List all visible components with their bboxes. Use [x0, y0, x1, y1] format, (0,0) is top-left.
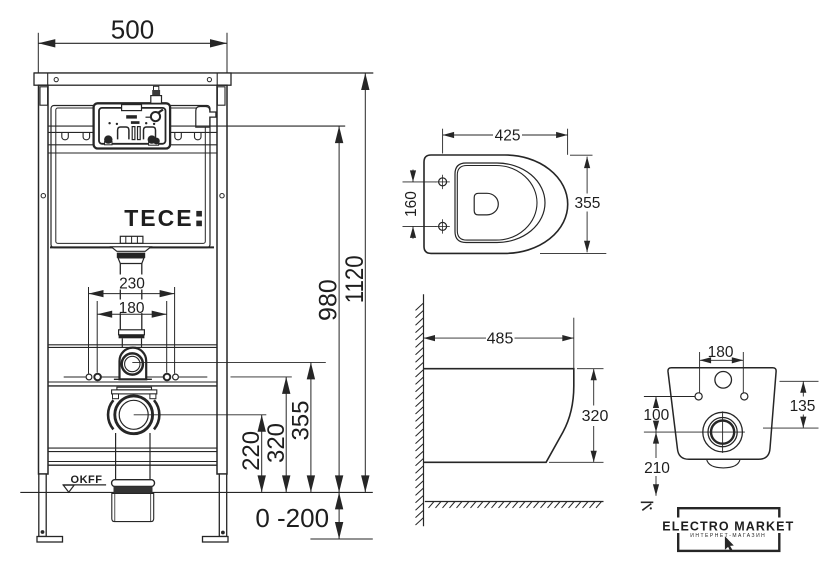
drain bracket wide bar	[112, 390, 157, 394]
svg-text:220: 220	[238, 431, 265, 471]
flush unit top notch	[122, 105, 142, 111]
svg-text:485: 485	[487, 331, 514, 348]
slotted rail top line / 980 extension	[48, 125, 345, 127]
rail slot 3	[175, 132, 182, 139]
svg-text:320: 320	[263, 423, 290, 463]
dimension 160	[403, 170, 437, 239]
svg-text:425: 425	[495, 128, 521, 145]
frame top plate	[34, 73, 231, 85]
svg-text:230: 230	[119, 275, 145, 292]
valve body	[151, 96, 162, 104]
water inlet circle	[122, 353, 143, 374]
svg-text:100: 100	[643, 407, 669, 424]
flush valve funnel	[118, 258, 144, 264]
rear bottom pipe bulge	[707, 459, 741, 468]
flush unit bottom screw right	[149, 141, 159, 145]
valve cap	[152, 90, 160, 96]
slotted rail lower lines	[48, 144, 217, 146]
rail screw left	[41, 194, 45, 198]
svg-text:980: 980	[315, 279, 343, 321]
leg screw right	[221, 531, 225, 535]
svg-text:320: 320	[582, 408, 609, 425]
drain circle	[115, 396, 153, 434]
dimension 1120	[341, 73, 370, 492]
svg-text:180: 180	[119, 300, 145, 317]
flush unit lever handle	[158, 110, 163, 113]
bolt hole outer right	[173, 374, 179, 380]
flush unit lever circle	[151, 112, 160, 121]
drain clamp arm left	[108, 400, 113, 429]
bolt hole ringed left	[94, 374, 101, 381]
rail slot 1	[62, 132, 69, 139]
wall line	[423, 294, 425, 526]
drain clamp arm right	[154, 400, 159, 429]
rail slot 4	[195, 132, 202, 139]
rear drain crosshair horizontal / 100-210 lower extension	[644, 431, 745, 433]
rail slot 2	[83, 132, 90, 139]
dimension 500	[38, 15, 227, 73]
OKFF underline	[63, 484, 107, 486]
220 extension line from drain	[134, 414, 267, 416]
svg-text:ИНТЕРНЕТ-МАГАЗИН: ИНТЕРНЕТ-МАГАЗИН	[690, 533, 766, 539]
floor line side view	[425, 501, 604, 503]
rear outline	[668, 368, 776, 460]
flush unit lever line	[146, 116, 152, 118]
dimension 100	[643, 397, 669, 433]
bolt hole ringed right	[164, 374, 171, 381]
drain outlet collar	[112, 480, 155, 487]
svg-text:1120: 1120	[341, 255, 369, 303]
logo text band	[662, 518, 795, 534]
svg-text:500: 500	[111, 15, 154, 45]
bolt hole outer left	[86, 374, 92, 380]
left foot plate	[37, 537, 63, 543]
toilet rim outer	[455, 163, 545, 243]
dimension 180 rear	[700, 344, 744, 393]
flush pipe collar	[119, 330, 145, 335]
dimension 180	[97, 300, 167, 373]
flush unit outer box	[94, 103, 171, 148]
right foot plate	[203, 537, 229, 543]
inlet housing base	[114, 378, 152, 380]
drain outlet dark band	[114, 487, 153, 494]
drain bracket tabs	[113, 394, 119, 399]
toilet outer outline	[424, 155, 568, 253]
flush valve ribbed connector	[120, 236, 143, 243]
flush unit center bars	[132, 127, 135, 140]
dimension 485	[424, 318, 574, 369]
rear mounting hole left	[695, 393, 702, 400]
cistern fill valve bump right	[196, 107, 216, 128]
svg-text:160: 160	[403, 191, 420, 217]
flush unit bottom screw left	[105, 141, 112, 144]
cistern outer body	[51, 106, 210, 248]
rear drain circles	[703, 412, 743, 452]
floor level mark	[641, 502, 654, 510]
toilet rim inner	[457, 166, 537, 241]
valve stem	[154, 86, 159, 90]
drain outlet cylinder	[112, 493, 154, 521]
bottom cross rail	[48, 448, 217, 461]
cistern inner line	[56, 108, 206, 243]
TECE colon squares	[196, 211, 202, 217]
dimension 320	[263, 377, 291, 493]
svg-text:TECE: TECE	[124, 205, 193, 231]
dimension 0-200	[255, 492, 372, 539]
logo box	[678, 508, 779, 551]
rear mounting hole right	[741, 393, 748, 400]
dimension 355	[288, 362, 316, 492]
flush unit U bracket left	[118, 127, 129, 139]
drain lower pipe	[116, 433, 150, 480]
dimension 320 side view	[549, 369, 608, 463]
drain bracket upper bar	[117, 387, 152, 390]
flush hole	[474, 193, 498, 215]
dimension 355 top view	[540, 155, 606, 253]
frame left rail	[39, 85, 49, 474]
rear top inlet circle	[715, 372, 732, 389]
bolt center line dashes	[64, 376, 208, 378]
right leg	[219, 474, 226, 537]
svg-text:0 -200: 0 -200	[255, 503, 329, 533]
frame right rail	[217, 85, 227, 474]
svg-text:180: 180	[708, 344, 734, 361]
flush valve flange	[111, 247, 151, 252]
dimension 425	[443, 128, 568, 155]
leg screw left	[41, 530, 45, 534]
wire: 1120 top extension line / top plate top edge	[34, 72, 373, 74]
left rail bracket tab	[40, 87, 48, 105]
svg-text:355: 355	[574, 195, 600, 212]
320 extension line	[231, 376, 292, 378]
mounting hole lower	[435, 219, 449, 233]
flush pipe	[120, 264, 142, 331]
flush pipe lower stub	[122, 338, 141, 347]
dimension 980	[315, 126, 344, 492]
water inlet arch housing	[120, 348, 147, 380]
upper cross rail	[48, 345, 217, 382]
flush valve gasket dark band	[117, 253, 145, 258]
flush unit inner box	[99, 108, 166, 144]
svg-text:355: 355	[288, 400, 315, 440]
flush unit U bracket right	[144, 127, 156, 139]
mounting hole upper	[435, 175, 449, 189]
dimension 210	[644, 432, 670, 496]
floor line	[20, 491, 373, 493]
dimension 220	[238, 415, 266, 493]
toilet side profile	[424, 369, 574, 463]
flush unit dark dash 1	[126, 115, 137, 118]
100 upper extension line	[644, 396, 695, 398]
svg-text:OKFF: OKFF	[71, 474, 103, 486]
dimension 230	[89, 275, 175, 374]
cistern bottom thick line	[50, 246, 214, 248]
mouse cursor	[725, 536, 734, 551]
floor hatching	[429, 502, 602, 508]
wall hatching	[416, 303, 424, 525]
flush unit dots	[108, 122, 155, 125]
rear drain crosshair vertical	[722, 411, 724, 453]
flush unit dark dash 2	[131, 121, 140, 124]
dimension 135	[763, 381, 819, 428]
left leg	[39, 474, 46, 537]
rail screw right	[220, 194, 224, 198]
slotted rail second line	[48, 131, 217, 133]
right rail bracket tab	[217, 87, 225, 105]
355 extension line from inlet	[132, 361, 325, 363]
OKFF level triangle	[63, 485, 74, 492]
svg-text:ELECTRO MARKET: ELECTRO MARKET	[662, 520, 794, 534]
svg-text:210: 210	[644, 460, 670, 477]
svg-text:135: 135	[790, 398, 816, 415]
flush pipe collar dark band	[119, 335, 145, 339]
